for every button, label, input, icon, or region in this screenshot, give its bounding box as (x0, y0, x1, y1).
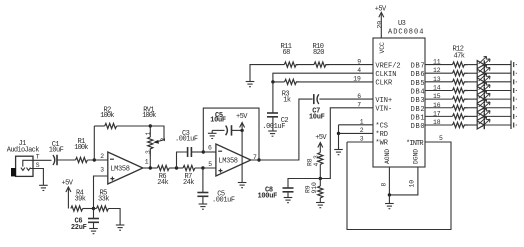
U3 pin 11 DB7 (411, 59, 453, 71)
wire C3 to op-amp2 pin6 (203, 151, 216, 153)
wire R12 to LED DB2 row (468, 107, 478, 109)
svg-text:100k: 100k (100, 112, 114, 120)
resistor R4 39k (71, 189, 94, 211)
wire LED DB3 to bus (484, 98, 511, 100)
terminal tick DB1 row (514, 114, 517, 119)
svg-text:AGND: AGND (384, 149, 391, 164)
svg-text:16: 16 (433, 102, 441, 109)
svg-text:DGND: DGND (413, 149, 420, 164)
capacitor C6 22uF (71, 209, 99, 232)
resistor R7 24k (183, 165, 195, 186)
LED D1 (477, 56, 490, 68)
svg-text:2: 2 (360, 127, 364, 134)
wire R12 to LED DB6 row (468, 72, 478, 74)
svg-text:U3: U3 (398, 20, 406, 28)
svg-text:LM358: LM358 (218, 158, 237, 166)
svg-text:14: 14 (433, 84, 441, 91)
wire op-amp1 output row (143, 167, 158, 169)
wire feedback vertical up from node (93, 126, 95, 160)
wire op-amp1 pin3 to bias node (94, 176, 108, 209)
+5V arrow ADC VCC pin 20 (375, 6, 387, 39)
svg-text:*CS: *CS (375, 122, 388, 130)
capacitor C3 .001uF (175, 130, 203, 168)
capacitor C2 .001uF (262, 82, 288, 131)
wire feedback loop op-amp2 output to pin6 (203, 108, 259, 160)
terminal tick DB3 row (514, 97, 517, 102)
svg-text:2: 2 (100, 153, 104, 160)
ground below J1 S pin (39, 185, 48, 190)
svg-text:13: 13 (433, 76, 441, 83)
wire J1 T pin to C1 (33, 159, 52, 161)
svg-text:6: 6 (357, 93, 361, 100)
ground below C6 (89, 229, 98, 234)
node op-amp2 output (257, 158, 260, 161)
svg-text:11: 11 (433, 59, 441, 66)
svg-text:LM358: LM358 (110, 166, 129, 174)
svg-text:100k: 100k (74, 144, 88, 152)
svg-text:+5V: +5V (375, 6, 387, 14)
wire CS/RD to ground (338, 125, 340, 150)
wire LED DB4 to bus (484, 89, 511, 91)
node R8/R9/C8/VIN- (319, 177, 322, 180)
wire R12 to LED DB7 row (468, 64, 478, 66)
node RV1 top junction (149, 124, 152, 127)
LED D4 (477, 82, 490, 94)
resistor R3 1k (282, 79, 299, 104)
capacitor C5 10uF bypass (210, 112, 242, 136)
svg-text:3: 3 (145, 150, 152, 154)
node AGND/DGND (388, 193, 391, 196)
U3 pin 4 CLKIN (357, 67, 396, 79)
wire R12 to LED DB4 row (468, 89, 478, 91)
capacitor C7 10uF (309, 94, 373, 121)
U3 pin 3 *WR (347, 136, 389, 148)
wire feedback top row to R2 (94, 125, 104, 127)
svg-text:22uF: 22uF (71, 224, 87, 232)
wire R12 to LED DB5 row (468, 81, 478, 83)
svg-text:*WR: *WR (375, 140, 388, 148)
U3 pin 9 VREF/2 (357, 58, 400, 70)
resistor network R12 47k label (453, 46, 465, 61)
svg-text:17: 17 (433, 110, 441, 117)
node R4/R5/C6/pin3 (92, 207, 95, 210)
wire R2 to RV1 top (117, 125, 151, 127)
svg-text:.001uF: .001uF (212, 196, 235, 204)
LED D6 (477, 100, 490, 112)
resistor R11 68 (281, 43, 299, 67)
U3 pin 12 DB6 (411, 67, 453, 79)
resistor R12 element DB0 row (453, 122, 468, 127)
capacitor C5 .001uF (to ground) (197, 168, 234, 204)
wire VIN- from chip to divider (320, 108, 373, 179)
connector J1 AudioJack (7, 140, 40, 176)
svg-text:4.3: 4.3 (313, 155, 320, 166)
wire LED DB5 to bus (484, 81, 511, 83)
terminal tick DB7 row (514, 62, 517, 67)
svg-text:VIN+: VIN+ (375, 97, 392, 105)
svg-text:DB4: DB4 (411, 88, 425, 96)
svg-text:100k: 100k (142, 112, 156, 120)
svg-text:20: 20 (377, 21, 384, 29)
resistor R5 33k (94, 189, 121, 225)
potentiometer RV1 100k (142, 106, 167, 168)
wire VREF/2 row with ground left end (250, 65, 373, 82)
svg-text:33k: 33k (98, 195, 109, 203)
svg-text:AudioJack: AudioJack (7, 147, 39, 155)
svg-text:2: 2 (160, 138, 167, 142)
wire R12 to LED DB0 row (468, 124, 478, 126)
wire *WR to *INTR loop (347, 142, 451, 230)
wire J1 S pin down (33, 169, 43, 186)
capacitor C8 100uF (258, 179, 321, 201)
LED D2 (477, 65, 490, 77)
resistor R12 element DB7 row (453, 62, 468, 67)
node C5 / +5V rail (240, 129, 243, 132)
resistor R12 element DB1 row (453, 114, 468, 119)
op-amp U2 LM358 (second) (208, 144, 257, 176)
svg-text:DB0: DB0 (411, 123, 425, 131)
U3 pin 10 DGND (389, 149, 419, 195)
svg-text:24k: 24k (183, 179, 194, 187)
ground left of R11 (246, 82, 255, 87)
+5V arrow op-amp2 rail (236, 113, 248, 130)
svg-text:47k: 47k (454, 53, 465, 61)
svg-text:+5V: +5V (236, 113, 248, 121)
svg-text:+5V: +5V (315, 134, 327, 142)
U3 pin 2 *RD (339, 127, 389, 139)
ground below C8 (284, 198, 293, 203)
+5V arrow for R8 (315, 134, 327, 152)
svg-text:10uF: 10uF (49, 146, 64, 154)
wire R12 to LED DB1 row (468, 115, 478, 117)
wire R12 to LED DB3 row (468, 98, 478, 100)
LED D3 (477, 74, 490, 86)
svg-text:5: 5 (208, 161, 212, 168)
wire LED DB0 to bus (484, 124, 511, 126)
wire LED DB7 to bus (484, 64, 511, 66)
svg-text:VCC: VCC (379, 42, 386, 53)
svg-text:1k: 1k (283, 97, 291, 105)
wire CLKR row through R3 (273, 81, 373, 83)
terminal tick DB4 row (514, 88, 517, 93)
terminal tick DB2 row (514, 105, 517, 110)
svg-text:6: 6 (208, 145, 212, 152)
svg-text:7: 7 (357, 102, 361, 109)
resistor R6 24k (157, 165, 169, 186)
wire +5V rail down through op-amp2 to ground (241, 130, 243, 182)
op-amp U1 LM358 (first) (100, 152, 148, 184)
U3 pin 6 VIN+ (357, 93, 392, 105)
svg-text:68: 68 (283, 49, 291, 57)
svg-text:10uF: 10uF (210, 117, 226, 125)
svg-text:DB7: DB7 (411, 63, 425, 71)
capacitor C1 10uF (49, 141, 64, 165)
svg-text:4: 4 (357, 67, 361, 74)
node CLKIN/CLKR/C2 (271, 80, 274, 83)
svg-text:15: 15 (433, 93, 441, 100)
svg-text:*RD: *RD (375, 131, 388, 139)
svg-text:1: 1 (145, 159, 149, 166)
resistor R10 820 (313, 43, 330, 67)
node op1 output / RV1 bottom (149, 166, 152, 169)
svg-text:12: 12 (433, 67, 441, 74)
svg-text:VIN-: VIN- (375, 105, 392, 113)
ground below R5 (116, 225, 125, 230)
svg-text:DB3: DB3 (411, 97, 425, 105)
ground under C5 bypass (208, 130, 217, 138)
svg-text:39k: 39k (75, 195, 86, 203)
node pin6 / feedback corner (202, 150, 205, 153)
svg-text:DB6: DB6 (411, 71, 425, 79)
terminal tick DB0 row (514, 123, 517, 128)
ground below ADC (385, 204, 394, 209)
U3 pin 5 *INTR (406, 135, 443, 148)
wire R7 to op-amp2 pin5 (195, 167, 216, 169)
svg-text:DB2: DB2 (411, 106, 425, 114)
U3 pin 16 DB2 (411, 102, 453, 114)
+5V arrow for R4 (62, 179, 74, 208)
node CS/RD (337, 132, 340, 135)
U3 pin 13 DB5 (411, 76, 453, 88)
svg-text:VREF/2: VREF/2 (375, 62, 400, 70)
wire LED DB1 to bus (484, 115, 511, 117)
svg-text:1: 1 (360, 119, 364, 126)
svg-text:10uF: 10uF (309, 113, 325, 121)
resistor R9 910 (vertical) (305, 179, 323, 203)
svg-text:CLKIN: CLKIN (375, 71, 396, 79)
terminal tick DB5 row (514, 79, 517, 84)
svg-text:3: 3 (360, 136, 364, 143)
terminal tick DB6 row (514, 71, 517, 76)
LED D8 (477, 117, 490, 129)
wire LED common bus (510, 61, 512, 130)
svg-text:.001uF: .001uF (262, 123, 285, 131)
svg-text:.001uF: .001uF (175, 136, 198, 144)
LED D7 (477, 108, 490, 120)
node between R6 and R7 (C3 tap) (175, 166, 178, 169)
svg-text:DB5: DB5 (411, 80, 425, 88)
IC U3 ADC0804 body (373, 20, 425, 167)
wire R1 to op-amp pin 2, node (87, 159, 107, 161)
U3 pin 7 VIN- (357, 102, 392, 114)
svg-text:9: 9 (357, 58, 361, 65)
ground below CS/RD (334, 150, 343, 155)
svg-text:8: 8 (381, 183, 388, 187)
svg-text:3: 3 (100, 167, 104, 174)
resistor R8 4.3 (vertical) (307, 153, 323, 179)
svg-text:910: 910 (311, 182, 318, 193)
resistor R1 100k (74, 138, 88, 162)
svg-text:*INTR: *INTR (406, 140, 424, 148)
svg-text:CLKR: CLKR (375, 80, 393, 88)
node after R7 (C5 tap) (201, 166, 204, 169)
resistor R12 element DB4 row (453, 88, 468, 93)
ground below R9 (316, 203, 325, 208)
ground below C5 (199, 204, 208, 209)
U3 pin 14 DB4 (411, 84, 453, 96)
resistor R12 element DB6 row (453, 71, 468, 76)
resistor R12 element DB5 row (453, 79, 468, 84)
wire CLKIN row (273, 73, 373, 82)
U3 pin 17 DB1 (411, 110, 453, 122)
resistor R12 element DB2 row (453, 105, 468, 110)
resistor R2 100k (100, 106, 116, 128)
svg-text:100uF: 100uF (258, 192, 278, 200)
ground below C2 (268, 131, 277, 136)
U3 pin 8 AGND (381, 149, 392, 195)
svg-text:10: 10 (409, 180, 416, 188)
svg-text:1: 1 (145, 132, 152, 136)
svg-text:5: 5 (439, 135, 443, 142)
wire to ground below ADC (388, 195, 390, 204)
wire R6 to R7 (169, 167, 183, 169)
U3 pin 18 DB0 (411, 119, 453, 131)
wire LED DB6 to bus (484, 72, 511, 74)
wire LED DB2 to bus (484, 107, 511, 109)
U3 pin 1 *CS (339, 119, 389, 131)
svg-text:19: 19 (353, 76, 361, 83)
svg-text:820: 820 (313, 49, 324, 57)
ground below op-amp2 (238, 183, 247, 188)
wire op-amp2 output to C7 riser (251, 99, 313, 160)
LED D5 (477, 91, 490, 103)
svg-text:+5V: +5V (62, 179, 74, 187)
wire C1 to R1 (57, 159, 76, 161)
resistor R12 element DB3 row (453, 97, 468, 102)
U3 pin 15 DB3 (411, 93, 453, 105)
U3 pin 19 CLKR (353, 76, 393, 88)
svg-text:18: 18 (433, 119, 441, 126)
node at R1 / feedback junction (93, 158, 96, 161)
svg-text:DB1: DB1 (411, 114, 425, 122)
svg-text:24k: 24k (157, 179, 168, 187)
svg-text:T: T (36, 153, 40, 160)
